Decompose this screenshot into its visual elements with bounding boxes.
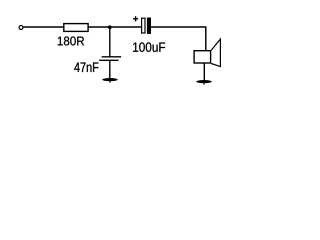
resistor R1 body (64, 24, 88, 32)
speaker LS1 cone (211, 39, 220, 67)
ground (196, 80, 211, 85)
capacitor value 47nF (74, 63, 98, 72)
wire (23, 26, 64, 28)
ground (102, 78, 117, 83)
wire (203, 64, 205, 81)
wire (109, 27, 111, 57)
resistor value 180R (58, 37, 84, 46)
capacitor C1 negative plate (142, 18, 145, 33)
capacitor C2 plates (102, 56, 121, 58)
capacitor value 100uF (133, 42, 165, 52)
capacitor C1 positive plate (147, 18, 151, 34)
input terminal (19, 25, 23, 29)
node junction (108, 25, 112, 29)
wire (151, 27, 206, 51)
capacitor C1 polarity + (133, 16, 138, 21)
wire (88, 26, 141, 28)
speaker LS1 body (194, 51, 211, 63)
wire (109, 60, 111, 79)
